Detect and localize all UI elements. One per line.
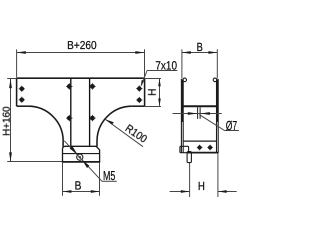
dimension H+160 top extension line — [7, 78, 16, 80]
dimension B (side view) left arrowhead — [182, 51, 191, 54]
dimension B (side view) left extension — [181, 49, 183, 78]
dimension B (side view) right arrowhead — [208, 51, 217, 54]
dimension Ø7 left arrowhead — [188, 112, 198, 115]
svg-text:M5: M5 — [103, 168, 115, 183]
dimension H (plan view) top extension — [145, 78, 161, 80]
dimension Ø7 line — [173, 113, 222, 115]
dimension H (side view) right line segment — [218, 191, 237, 193]
dimension B (plan view) right arrowhead — [91, 190, 100, 193]
dimension B (plan view) right extension — [99, 163, 101, 196]
radius R100 leader line — [105, 119, 143, 146]
side view right wall upper filler — [216, 80, 218, 123]
slot hole left arm upper — [19, 86, 25, 92]
hole Ø7 right edge line — [199, 107, 201, 119]
dimension H (plan view) bottom arrowhead — [158, 99, 161, 106]
dimension H (plan view) bottom extension — [145, 106, 161, 108]
svg-text:B+260: B+260 — [67, 40, 97, 52]
dimension H+160 line — [10, 79, 12, 162]
slot hole side view right — [207, 145, 213, 151]
side view left wall outer line — [180, 79, 182, 153]
coupler plate fold line — [63, 153, 100, 155]
dimension H (side view) left extension — [189, 163, 191, 197]
M5 leader line — [64, 141, 102, 182]
slot hole branch left lower — [66, 115, 72, 121]
dimension H (side view) right arrowhead — [218, 190, 227, 193]
side view right wall outer line — [217, 79, 219, 153]
dimension Ø7 leader diagonal — [199, 115, 224, 131]
label 7x10 leader arrowhead — [141, 80, 144, 87]
dimension B+260 line — [17, 52, 145, 54]
dimension B (side view) line — [182, 52, 217, 54]
dimension B+260 left arrowhead — [17, 51, 26, 54]
dimension H+160 top arrowhead — [9, 79, 12, 88]
side view left rim hook — [183, 78, 187, 82]
M5 hole circle — [77, 154, 83, 160]
side view left wall upper filler — [181, 80, 183, 123]
tee branch rail left line — [70, 78, 72, 146]
label 7x10 leader underline — [147, 70, 177, 72]
dimension B+260 right arrowhead — [135, 51, 144, 54]
tee right arm bottom edge — [132, 105, 145, 107]
svg-text:B: B — [75, 179, 82, 193]
tee leg left outer edge — [62, 141, 64, 147]
tee left arm bottom edge — [17, 105, 29, 107]
side view left wall inner line — [182, 80, 184, 153]
M5 leader underline — [102, 180, 117, 182]
slot hole branch right lower — [89, 115, 95, 121]
coupler plate bottom edge — [62, 161, 100, 163]
svg-text:7x10: 7x10 — [155, 58, 177, 72]
slot hole branch left upper — [66, 83, 72, 89]
slot hole right arm upper — [136, 86, 142, 92]
svg-text:H: H — [147, 88, 159, 96]
svg-text:Ø7: Ø7 — [226, 118, 237, 133]
dimension H+160 bottom arrowhead — [9, 152, 12, 161]
dimension H (side view) right extension — [217, 153, 219, 197]
side view right wall inner line — [216, 80, 218, 153]
tee left end edge — [16, 78, 18, 106]
dimension B (plan view) left extension — [62, 163, 64, 196]
side view bottom-left notch — [180, 146, 189, 152]
M5 hole center dot — [79, 156, 81, 158]
tee right fillet arc R100 — [97, 106, 132, 141]
dimension H (plan view) top arrowhead — [158, 79, 161, 86]
slot hole branch right upper — [89, 83, 95, 89]
dimension H (side view) left line segment — [170, 191, 190, 193]
svg-text:H+160: H+160 — [2, 106, 13, 136]
dimension H+160 bottom extension line — [7, 161, 62, 163]
svg-text:R100: R100 — [123, 123, 149, 146]
slot hole left arm lower — [19, 97, 25, 103]
tee left fillet arc R100 — [28, 106, 63, 141]
M5 leader lower arrowhead — [82, 160, 89, 168]
tee branch rail right line — [89, 78, 91, 146]
label 7x10 leader diagonal — [141, 71, 147, 86]
side view tray floor line — [183, 105, 217, 107]
dimension B (plan view) line — [63, 191, 100, 193]
tee leg right outer edge — [96, 141, 98, 147]
dimension H (side view) left arrowhead — [181, 190, 190, 193]
side view right rim hook — [213, 78, 217, 82]
dimension H (plan view) line — [159, 79, 161, 106]
dimension Ø7 right arrowhead — [200, 112, 210, 115]
slot hole side view left — [197, 145, 203, 151]
M5 leader upper arrowhead — [70, 146, 78, 155]
tee right end edge — [144, 78, 146, 106]
dimension B+260 extension line left — [16, 49, 18, 77]
dimension B (plan view) left arrowhead — [63, 190, 72, 193]
dimension B (side view) right extension — [216, 49, 218, 78]
coupler plate outline — [63, 146, 100, 162]
tee top edge — [17, 77, 145, 79]
side view inner shelf line — [183, 140, 216, 142]
dimension B+260 extension line right — [144, 49, 146, 77]
svg-text:B: B — [197, 40, 203, 54]
side view bottom edge — [187, 152, 218, 154]
hole Ø7 left edge line — [197, 107, 199, 119]
side view hanging tab — [187, 152, 191, 163]
dimension Ø7 leader underline — [225, 130, 240, 132]
radius R100 arrowhead — [105, 119, 113, 124]
svg-text:H: H — [198, 179, 205, 193]
slot hole right arm lower — [136, 97, 142, 103]
